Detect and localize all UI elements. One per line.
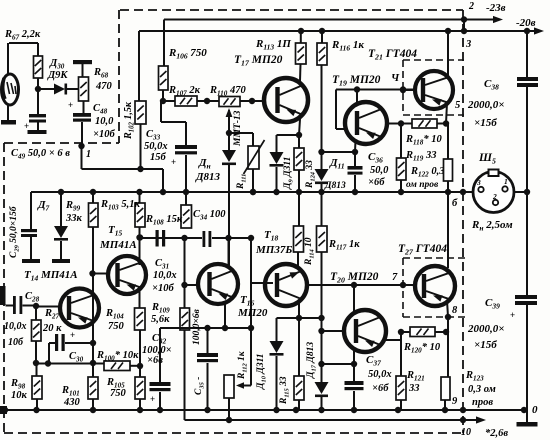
svg-text:10,0х: 10,0х — [4, 321, 27, 332]
svg-text:1: 1 — [86, 149, 91, 160]
svg-text:430: 430 — [63, 397, 81, 408]
svg-text:R106 750: R106 750 — [168, 47, 207, 61]
svg-text:0,3 ом: 0,3 ом — [468, 384, 496, 395]
svg-text:R67 2,2к: R67 2,2к — [4, 29, 41, 42]
svg-text:+: + — [150, 394, 155, 404]
svg-text:20 к: 20 к — [42, 323, 62, 334]
svg-text:R102 1,5к: R102 1,5к — [123, 101, 136, 140]
svg-text:1: 1 — [504, 177, 508, 186]
svg-text:2: 2 — [492, 192, 497, 201]
svg-text:10,0х: 10,0х — [153, 270, 177, 281]
svg-text:R103 5,1к: R103 5,1к — [100, 199, 140, 212]
svg-text:R113 1П: R113 1П — [255, 38, 291, 52]
svg-text:10к: 10к — [11, 390, 28, 401]
svg-text:15б: 15б — [150, 152, 167, 163]
svg-text:Д9К: Д9К — [47, 70, 68, 81]
svg-text:-23в: -23в — [486, 2, 506, 14]
svg-text:33: 33 — [408, 383, 420, 394]
svg-text:+: + — [24, 121, 29, 131]
svg-text:750: 750 — [110, 388, 127, 399]
svg-text:2: 2 — [468, 1, 474, 12]
svg-text:10,0: 10,0 — [95, 116, 114, 127]
svg-text:R100* 10к: R100* 10к — [96, 350, 139, 363]
svg-text:10: 10 — [461, 427, 471, 438]
svg-text:б: б — [452, 198, 458, 209]
svg-text:×15б: ×15б — [474, 339, 497, 351]
svg-text:0: 0 — [532, 404, 538, 416]
svg-text:2000,0×: 2000,0× — [467, 99, 505, 111]
svg-text:×10б: ×10б — [152, 283, 174, 294]
svg-text:2000,0×: 2000,0× — [467, 323, 505, 335]
svg-text:+: + — [171, 157, 176, 167]
svg-text:×10б: ×10б — [93, 129, 115, 140]
svg-text:Д813: Д813 — [195, 171, 221, 183]
svg-text:R110 470: R110 470 — [209, 85, 246, 98]
svg-text:+: + — [68, 100, 73, 110]
svg-text:7: 7 — [392, 272, 398, 283]
svg-text:С34 100: С34 100 — [193, 209, 226, 222]
svg-text:Д9 Д311: Д9 Д311 — [283, 157, 295, 190]
svg-text:Rн 2,5ом: Rн 2,5ом — [471, 219, 513, 233]
svg-text:50,0х: 50,0х — [144, 141, 168, 152]
svg-text:470: 470 — [95, 81, 113, 92]
svg-text:+: + — [510, 310, 515, 320]
svg-text:МП41А: МП41А — [99, 239, 137, 251]
svg-text:×6б: ×6б — [372, 383, 389, 394]
svg-text:*2,6в: *2,6в — [485, 428, 508, 439]
svg-text:10б: 10б — [8, 337, 24, 348]
svg-text:5,6к: 5,6к — [151, 314, 170, 325]
svg-text:33к: 33к — [65, 213, 83, 224]
svg-text:8: 8 — [452, 305, 458, 316]
svg-text:50,0: 50,0 — [370, 165, 389, 176]
svg-text:5: 5 — [455, 100, 460, 111]
svg-text:R118* 10: R118* 10 — [405, 134, 442, 147]
svg-text:МП37Б: МП37Б — [255, 244, 292, 256]
svg-text:Д10 Д311: Д10 Д311 — [256, 353, 268, 390]
svg-text:×15б: ×15б — [474, 117, 497, 129]
svg-text:Ч: Ч — [391, 72, 400, 84]
svg-text:100,0×6в: 100,0×6в — [192, 308, 202, 345]
svg-text:750: 750 — [108, 321, 125, 332]
svg-text:Д17 Д813: Д17 Д813 — [306, 342, 318, 379]
svg-text:ММТ-13: ММТ-13 — [233, 110, 243, 147]
svg-text:×6б: ×6б — [368, 177, 385, 188]
svg-text:9: 9 — [452, 396, 458, 407]
svg-text:МП20: МП20 — [237, 307, 268, 319]
svg-text:3: 3 — [465, 39, 471, 50]
svg-text:-20в: -20в — [516, 17, 536, 29]
svg-text:3: 3 — [476, 178, 481, 187]
svg-text:Д813: Д813 — [324, 181, 346, 191]
svg-text:50,0х: 50,0х — [368, 369, 392, 380]
svg-text:пров: пров — [472, 397, 493, 408]
svg-text:R120* 10: R120* 10 — [403, 342, 441, 355]
svg-text:R108 15к: R108 15к — [145, 214, 183, 227]
svg-text:ом пров: ом пров — [406, 180, 439, 190]
svg-text:+: + — [70, 330, 75, 340]
svg-text:×6в: ×6в — [147, 355, 163, 366]
